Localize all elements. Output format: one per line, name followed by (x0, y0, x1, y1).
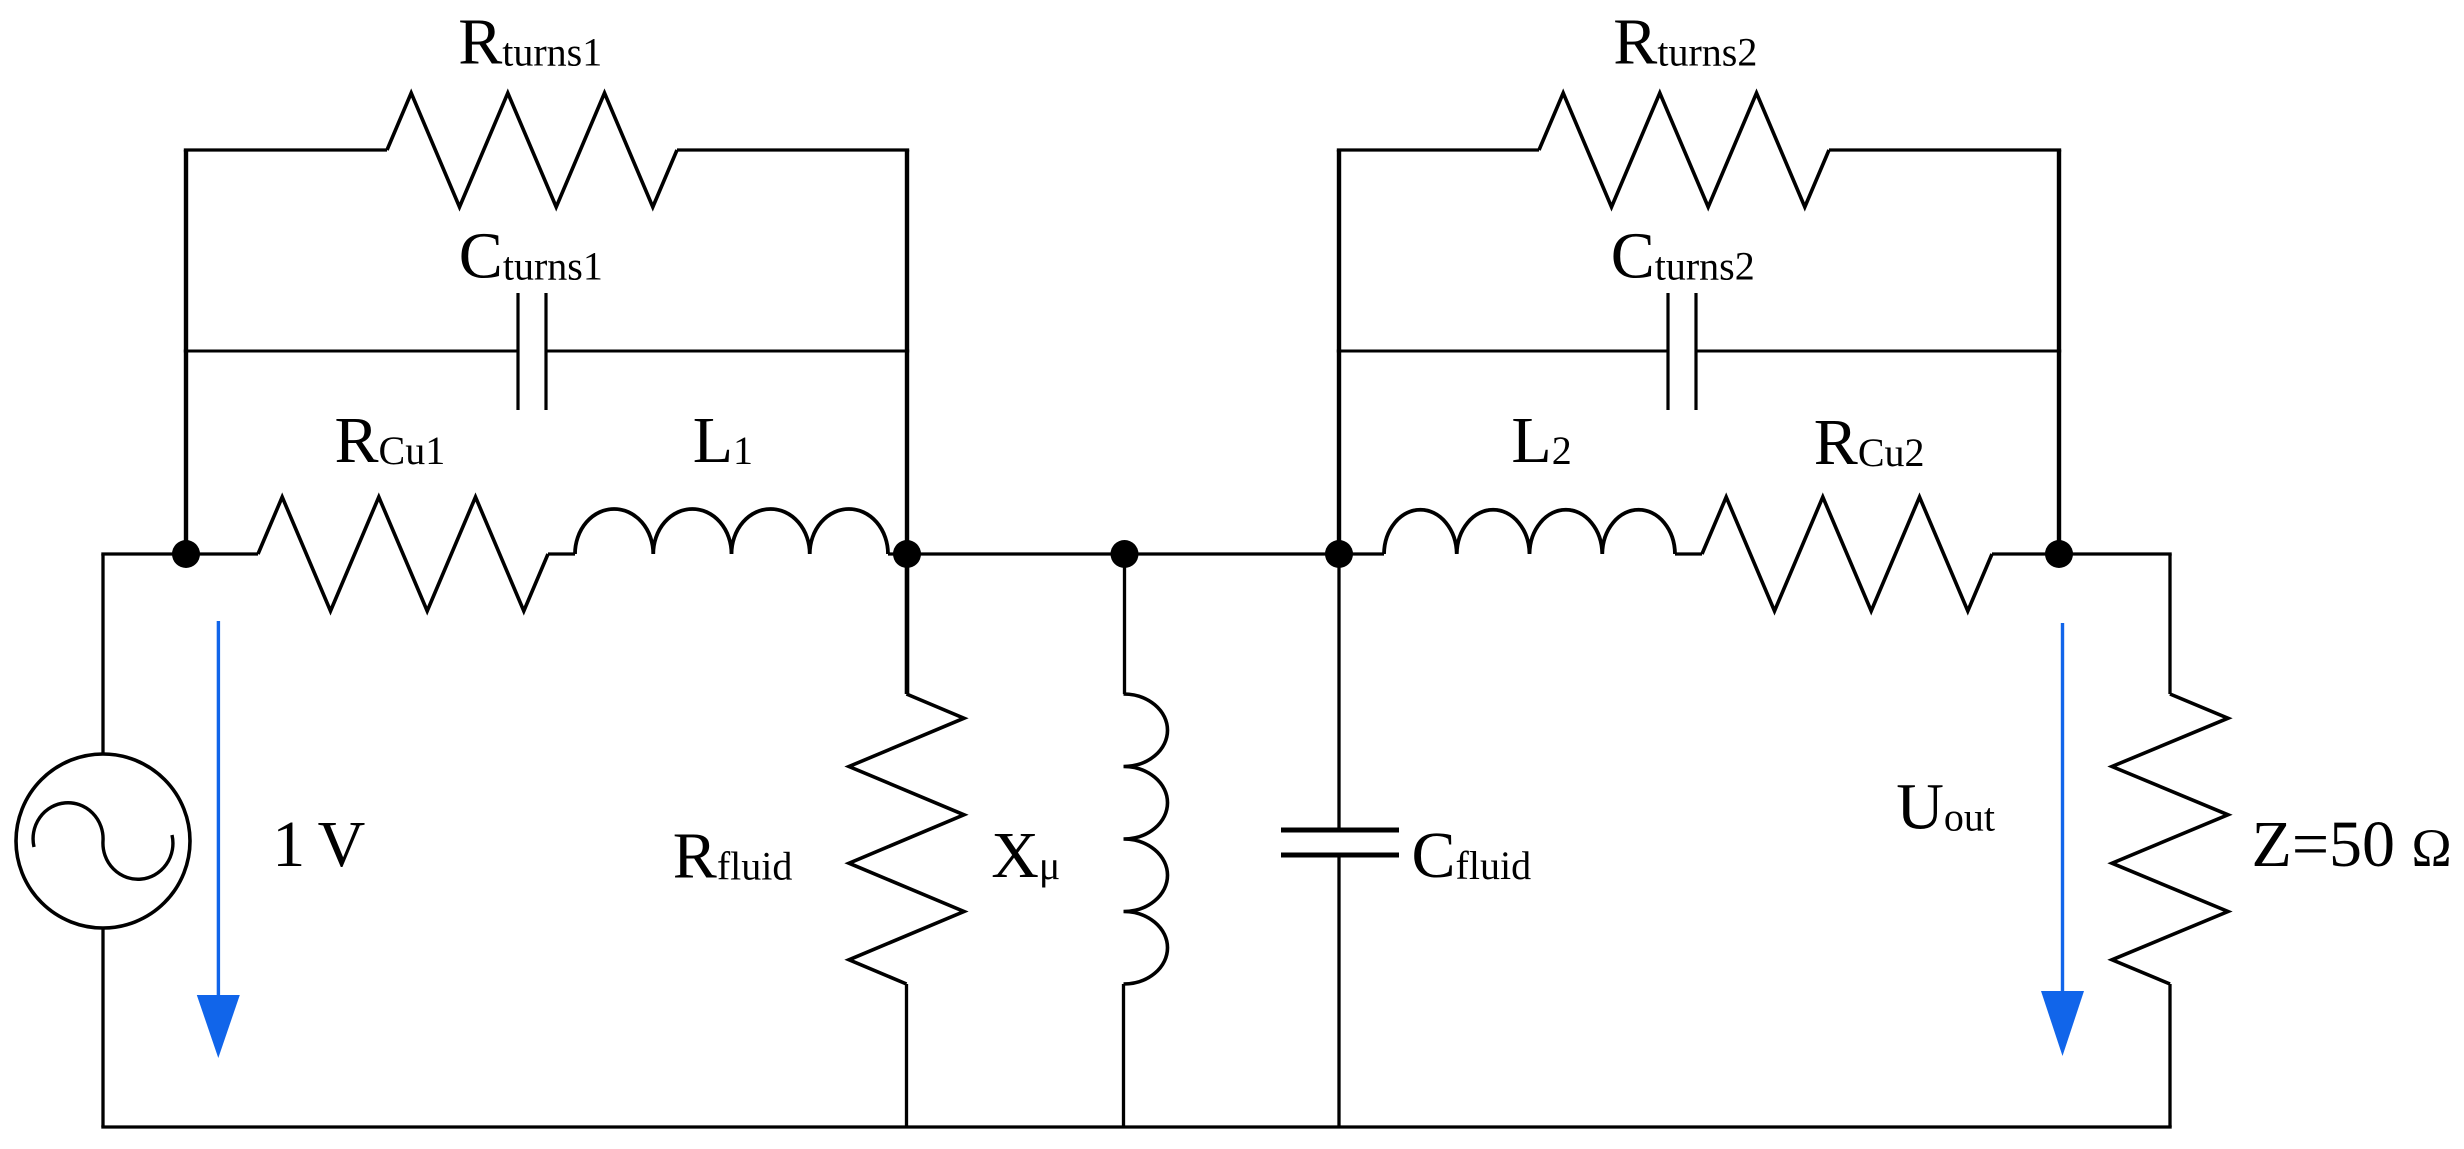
inductor L1 (575, 509, 888, 554)
junction node 1 (893, 540, 921, 568)
capacitor C_fluid bottom plate (1281, 853, 1399, 858)
wire left box top-right segment (677, 148, 909, 151)
current arrow U_out (head) (2041, 991, 2084, 1056)
junction node 4 (2045, 540, 2073, 568)
resistor R_Cu2 (1702, 497, 1992, 611)
wire left box right vertical (905, 150, 909, 554)
current arrow U_out (shaft) (2061, 623, 2064, 993)
wire node 2 down to X_mu (1123, 554, 1126, 694)
AC source sine wave (33, 803, 173, 880)
wire bottom rail (101, 1125, 2171, 1128)
wire C_turns1 right (546, 350, 909, 353)
resistor Z (50 ohm load) (2112, 694, 2228, 984)
current arrow at source (shaft) (217, 621, 220, 996)
inductor L2 (1384, 510, 1675, 554)
current arrow at source (head) (197, 995, 240, 1058)
wire right box left vertical (1337, 150, 1341, 554)
junction node 3 (1325, 540, 1353, 568)
wire node 4 to Z branch (2059, 552, 2172, 555)
wire source to node A (101, 552, 258, 555)
wire C_turns1 left (184, 350, 518, 353)
wire L1 to node 1 (888, 552, 907, 555)
wire X_mu to bottom rail (1122, 984, 1125, 1127)
resistor R_turns2 (1539, 93, 1829, 207)
wire Z branch bottom vertical (2168, 984, 2171, 1127)
wire L2 to R_Cu2 (1675, 552, 1702, 555)
capacitor C_turns1 left plate (516, 293, 519, 410)
wire source top (left outer vertical upper) (101, 554, 104, 756)
resistor R_Cu1 (258, 497, 548, 611)
wire node 1 down to R_fluid (905, 554, 910, 694)
wire right box top-left segment (1337, 148, 1539, 151)
wire R_fluid to bottom rail (905, 984, 908, 1127)
wire left box top-left segment (184, 148, 387, 151)
wire Z branch top vertical (2168, 554, 2171, 694)
wire node 3 to L2 (1339, 552, 1384, 555)
wire node 3 down to C_fluid (1337, 554, 1340, 830)
wire left box left vertical (184, 150, 188, 554)
AC source V1 circle (16, 754, 190, 928)
svg-text:Z=50 Ω: Z=50 Ω (2252, 808, 2452, 881)
wire node 1 to node 3 (907, 552, 1339, 555)
wire right box top-right segment (1829, 148, 2061, 151)
wire right box right vertical (2057, 150, 2061, 554)
capacitor C_turns2 left plate (1666, 293, 1669, 410)
svg-text:V: V (318, 808, 366, 881)
wire C_turns2 left (1337, 350, 1668, 353)
resistor R_turns1 (387, 93, 677, 207)
wire C_fluid to bottom rail (1337, 855, 1340, 1127)
capacitor C_fluid top plate (1281, 828, 1399, 833)
wire R_Cu1 to L1 (548, 552, 575, 555)
resistor R_fluid (849, 694, 964, 984)
inductor X_mu (1124, 694, 1168, 984)
capacitor C_turns2 right plate (1694, 293, 1697, 410)
junction node 2 (1111, 540, 1139, 568)
wire C_turns2 right (1696, 350, 2061, 353)
svg-text:1: 1 (272, 808, 305, 881)
wire R_Cu2 to node 4 (1992, 552, 2059, 555)
wire source bottom (left outer vertical lower) (101, 927, 104, 1128)
junction node A (172, 540, 200, 568)
capacitor C_turns1 right plate (544, 293, 547, 410)
